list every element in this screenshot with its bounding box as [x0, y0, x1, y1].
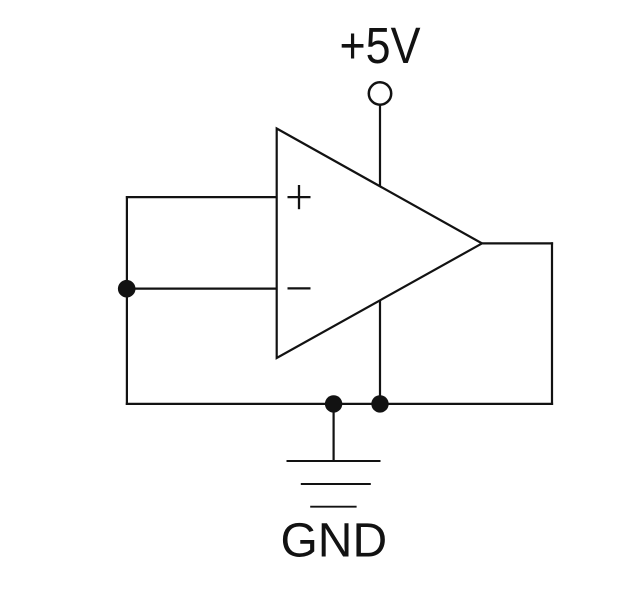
wire: left vertical feedback — [126, 196, 128, 405]
svg-text:+5V: +5V — [340, 17, 421, 74]
svg-text:GND: GND — [280, 514, 387, 567]
wire: ground stem — [333, 404, 335, 461]
op-amp non-inverting input marker + — [288, 185, 311, 209]
ground symbol bars — [287, 461, 381, 507]
junction node (ground tap) — [325, 395, 342, 412]
supply terminal (open circle) — [369, 82, 391, 104]
wire: inverting input — [127, 288, 277, 290]
wire: op-amp power pin down — [379, 300, 381, 404]
op-amp inverting input marker - — [288, 287, 311, 289]
op-amp U1 (triangle body) — [277, 129, 482, 359]
wire: output — [482, 242, 553, 244]
wire: bottom rail — [126, 403, 553, 405]
wire: +5V terminal to op-amp top edge — [379, 105, 381, 187]
wire: non-inverting input — [126, 196, 277, 198]
junction node (inverting input tap) — [118, 280, 136, 298]
wire: right vertical output to bottom — [551, 242, 553, 405]
junction node (power pin to rail) — [371, 395, 388, 412]
